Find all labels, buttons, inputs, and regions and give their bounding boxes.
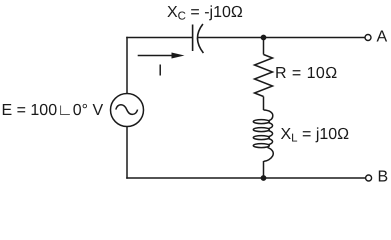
- svg-text:E = 100∟0° V: E = 100∟0° V: [2, 102, 104, 119]
- inductor L coil: [253, 110, 273, 161]
- svg-text:A: A: [377, 29, 388, 46]
- current arrow: [138, 55, 173, 57]
- wire top-left horizontal (source to capacitor): [126, 37, 192, 39]
- svg-text:R = 10Ω: R = 10Ω: [275, 65, 338, 82]
- wire left rail upper (top wire down to source): [126, 37, 128, 94]
- capacitor C plate right (curved): [197, 24, 203, 53]
- node dot top (junction at resistor branch): [261, 35, 267, 41]
- svg-text:XL = j10Ω: XL = j10Ω: [281, 126, 350, 145]
- svg-text:B: B: [378, 169, 389, 186]
- ac source U1 circle: [111, 94, 144, 127]
- resistor R zigzag: [255, 55, 273, 97]
- wire left rail lower (source to bottom wire): [126, 127, 128, 179]
- wire branch: inductor bottom to bottom wire: [263, 161, 265, 178]
- terminal B circle: [366, 175, 372, 181]
- wire branch: node to resistor top: [263, 38, 265, 55]
- terminal A circle: [365, 35, 371, 41]
- wire bottom horizontal: [126, 177, 366, 179]
- capacitor C plate left (straight): [192, 25, 194, 52]
- wire branch: resistor bottom to inductor top: [263, 97, 265, 111]
- wire top-right horizontal (capacitor to terminal A): [198, 37, 366, 39]
- ac source sine wave: [116, 105, 138, 115]
- svg-text:XC = -j10Ω: XC = -j10Ω: [167, 4, 243, 23]
- svg-text:I: I: [158, 63, 162, 80]
- node dot bottom (junction at inductor branch): [261, 175, 267, 181]
